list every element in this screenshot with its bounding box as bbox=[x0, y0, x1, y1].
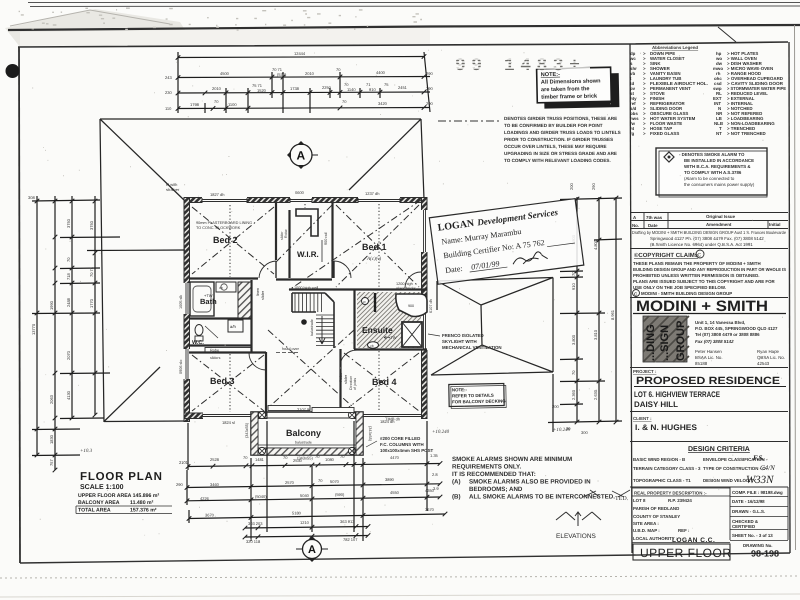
svg-text:6107 dh: 6107 dh bbox=[429, 299, 433, 313]
svg-text:3750: 3750 bbox=[66, 218, 71, 228]
svg-text:FRENCO ISOLATED: FRENCO ISOLATED bbox=[442, 333, 484, 338]
roof hip top-left bbox=[100, 119, 184, 200]
svg-text:70 74: 70 74 bbox=[89, 266, 94, 277]
svg-text:70: 70 bbox=[315, 454, 320, 459]
svg-text:900 rail: 900 rail bbox=[324, 232, 328, 245]
svg-text:TOTAL AREA: TOTAL AREA bbox=[78, 508, 111, 514]
svg-text:2010: 2010 bbox=[305, 71, 315, 76]
svg-text:Balcony: Balcony bbox=[286, 428, 321, 438]
title block left border bbox=[630, 44, 632, 553]
svg-text:42543: 42543 bbox=[757, 361, 770, 366]
svg-text:Date: Date bbox=[648, 223, 658, 228]
svg-text:3.800: 3.800 bbox=[571, 334, 576, 345]
svg-text:QBSA Lic. No.: QBSA Lic. No. bbox=[757, 355, 785, 360]
svg-text:2070: 2070 bbox=[66, 350, 71, 360]
svg-text:3.810: 3.810 bbox=[593, 329, 598, 340]
svg-text:OCCUR OVER LINTELS, THESE MAY: OCCUR OVER LINTELS, THESE MAY REQUIRE bbox=[504, 144, 607, 149]
svg-text:fg: fg bbox=[630, 131, 634, 136]
svg-text:USE ONLY ON THE JOB SPECIFIED: USE ONLY ON THE JOB SPECIFIED BELOW. bbox=[633, 285, 726, 290]
svg-text:CLIENT :: CLIENT : bbox=[633, 416, 652, 421]
svg-text:+10.3: +10.3 bbox=[80, 448, 93, 454]
svg-text:Robe: Robe bbox=[339, 373, 343, 382]
svg-text:TOPOGRAPHIC CLASS - T1: TOPOGRAPHIC CLASS - T1 bbox=[633, 478, 691, 483]
svg-text:243: 243 bbox=[165, 75, 172, 80]
svg-text:1005 slk: 1005 slk bbox=[179, 295, 183, 309]
svg-text:C: C bbox=[698, 253, 702, 259]
svg-text:PROJECT :: PROJECT : bbox=[633, 369, 657, 374]
svg-text:MODINI - SMITH BUILDING DESIGN: MODINI - SMITH BUILDING DESIGN GROUP bbox=[641, 291, 732, 296]
truss dotted verticals bbox=[230, 204, 379, 412]
svg-text:1830: 1830 bbox=[49, 434, 54, 444]
amendment table bbox=[630, 213, 788, 229]
top dimension lines bbox=[178, 52, 430, 113]
svg-text:Bed 1: Bed 1 bbox=[362, 242, 387, 252]
left dimension lines bbox=[32, 196, 185, 470]
svg-text:1827 dh: 1827 dh bbox=[210, 192, 224, 197]
svg-text:2250: 2250 bbox=[322, 85, 332, 90]
top page edge lines bbox=[28, 3, 800, 7]
door ensuite bbox=[405, 272, 421, 288]
svg-text:4550: 4550 bbox=[390, 490, 400, 495]
svg-text:2107 lb: 2107 lb bbox=[297, 407, 311, 412]
svg-text:3750: 3750 bbox=[89, 220, 94, 230]
svg-text:CERTIFIED: CERTIFIED bbox=[732, 524, 755, 529]
svg-text:Drafting by MODINI + SMITH BUI: Drafting by MODINI + SMITH BUILDING DESI… bbox=[632, 230, 786, 235]
svg-text:363 913: 363 913 bbox=[340, 519, 355, 524]
svg-text:Original Issue: Original Issue bbox=[706, 214, 736, 219]
svg-text:DENOTES GIRDER TRUSS POSITIONS: DENOTES GIRDER TRUSS POSITIONS, THESE AR… bbox=[504, 116, 617, 121]
a/h hatch box bbox=[228, 320, 243, 332]
svg-text:70: 70 bbox=[283, 455, 288, 460]
svg-text:910: 910 bbox=[369, 87, 376, 92]
svg-text:vb: vb bbox=[370, 344, 374, 348]
drafting note lines bbox=[632, 230, 786, 247]
svg-text:BE INSTALLED IN ACCORDANCE: BE INSTALLED IN ACCORDANCE bbox=[684, 158, 754, 163]
girder truss note bbox=[438, 120, 500, 122]
balcony door bbox=[268, 406, 310, 411]
svg-text:BUILDING DESIGN GROUP AND ANY: BUILDING DESIGN GROUP AND ANY REPRODUCTI… bbox=[633, 267, 786, 272]
svg-text:Bed 3: Bed 3 bbox=[210, 376, 235, 386]
svg-text:+10.240: +10.240 bbox=[432, 429, 450, 435]
top dim labels bbox=[165, 51, 433, 111]
exterior wall bottom bbox=[184, 413, 267, 419]
svg-text:8.961: 8.961 bbox=[610, 309, 615, 320]
svg-text:98-198: 98-198 bbox=[751, 549, 779, 559]
svg-text:a/h: a/h bbox=[230, 324, 236, 329]
section marker A top bbox=[287, 141, 318, 169]
svg-text:4226: 4226 bbox=[200, 496, 210, 501]
svg-text:SKYLIGHT WITH: SKYLIGHT WITH bbox=[442, 339, 477, 344]
svg-text:900: 900 bbox=[408, 304, 414, 308]
svg-text:TO BE CONFIRMED BY BUILDER FOR: TO BE CONFIRMED BY BUILDER FOR POINT bbox=[504, 123, 603, 128]
svg-text:757: 757 bbox=[49, 459, 54, 466]
svg-text:910: 910 bbox=[571, 283, 576, 290]
svg-text:2451: 2451 bbox=[398, 85, 408, 90]
svg-text:110: 110 bbox=[165, 106, 172, 111]
svg-text:230: 230 bbox=[165, 90, 172, 95]
svg-text:No.: No. bbox=[632, 223, 639, 228]
scan speckle noise bbox=[32, 50, 785, 539]
balcony bbox=[251, 412, 363, 455]
svg-text:LOT 8: LOT 8 bbox=[633, 498, 646, 503]
exterior wall top bbox=[184, 198, 427, 203]
svg-text:1237 dh: 1237 dh bbox=[365, 191, 379, 196]
svg-text:strainer: strainer bbox=[166, 187, 180, 192]
svg-text:NT: NT bbox=[716, 131, 722, 136]
smoke alarms note bbox=[452, 456, 615, 501]
svg-text:PRIOR TO CONSTRUCTION. IF GIRD: PRIOR TO CONSTRUCTION. IF GIRDER TRUSSES bbox=[504, 137, 613, 142]
svg-text:BSAA Lic. No.: BSAA Lic. No. bbox=[695, 355, 723, 360]
copyright section bbox=[630, 248, 788, 250]
skylight note bbox=[428, 334, 440, 336]
svg-text:320 118: 320 118 bbox=[246, 539, 261, 544]
svg-text:TYPE OF CONSTRUCTION - C: TYPE OF CONSTRUCTION - C bbox=[703, 466, 766, 471]
robe strip below wc bbox=[205, 348, 251, 353]
ink blob bbox=[6, 64, 20, 78]
svg-text:1.35: 1.35 bbox=[430, 453, 439, 458]
svg-text:TO COMPLY WITH RELEVANT LOADIN: TO COMPLY WITH RELEVANT LOADING CODES. bbox=[504, 158, 611, 163]
svg-text:2101: 2101 bbox=[179, 460, 189, 465]
svg-text:DESIGN CRITERIA: DESIGN CRITERIA bbox=[688, 446, 750, 453]
door bed2 bbox=[259, 261, 276, 278]
svg-text:303 203: 303 203 bbox=[248, 521, 263, 526]
svg-text:+10.249: +10.249 bbox=[553, 427, 571, 433]
svg-text:SCALE 1:100: SCALE 1:100 bbox=[80, 484, 124, 491]
bottom dim labels bbox=[176, 453, 439, 544]
svg-text:7th was: 7th was bbox=[646, 215, 663, 220]
svg-text:U.B.D. MAP :: U.B.D. MAP : bbox=[633, 528, 660, 533]
bath vanity bbox=[216, 282, 236, 292]
svg-text:DRAWING No.: DRAWING No. bbox=[743, 543, 773, 548]
bath robe cupboard bbox=[238, 282, 251, 318]
interior walls bbox=[189, 203, 427, 413]
svg-text:11.480 m²: 11.480 m² bbox=[130, 500, 154, 506]
core filled columns note bbox=[366, 441, 377, 447]
svg-text:>: > bbox=[643, 131, 646, 136]
logan development services stamp bbox=[429, 199, 583, 285]
wc fixture bbox=[195, 325, 203, 336]
svg-text:Unit 1, 14 Vanessa Blvd,: Unit 1, 14 Vanessa Blvd, bbox=[695, 320, 745, 325]
svg-text:1738: 1738 bbox=[290, 86, 300, 91]
svg-text:0906 slo: 0906 slo bbox=[179, 360, 183, 374]
svg-text:TIMB dh: TIMB dh bbox=[385, 417, 400, 422]
svg-text:1000 high wall: 1000 high wall bbox=[294, 286, 318, 290]
svg-text:290: 290 bbox=[426, 71, 433, 76]
svg-text:COMP. FILE : 98198.dwg: COMP. FILE : 98198.dwg bbox=[732, 490, 783, 495]
svg-text:ALL SMOKE ALARMS TO BE INTERCO: ALL SMOKE ALARMS TO BE INTERCONNECTED. bbox=[469, 494, 615, 501]
svg-text:#200 CORE FILLED: #200 CORE FILLED bbox=[380, 436, 420, 441]
svg-text:the consumers mains power supp: the consumers mains power supply) bbox=[684, 182, 755, 187]
svg-text:4500: 4500 bbox=[220, 71, 230, 76]
svg-text:BASIC WIND REGION - B: BASIC WIND REGION - B bbox=[633, 457, 685, 462]
svg-text:REAL PROPERTY DESCRIPTION :-: REAL PROPERTY DESCRIPTION :- bbox=[634, 491, 707, 496]
svg-text:REF :: REF : bbox=[678, 528, 690, 533]
svg-text:5040: 5040 bbox=[300, 493, 310, 498]
svg-text:...SIGN: ...SIGN bbox=[659, 325, 671, 361]
svg-text:FIXED GLASS: FIXED GLASS bbox=[650, 131, 679, 136]
svg-text:W33N: W33N bbox=[746, 474, 774, 486]
svg-text:TO COMPLY WITH A.S.3786: TO COMPLY WITH A.S.3786 bbox=[684, 170, 742, 175]
svg-text:I. & N. HUGHES: I. & N. HUGHES bbox=[635, 423, 698, 432]
svg-text:REFER TO DETAILS: REFER TO DETAILS bbox=[452, 393, 494, 399]
svg-text:UPGRADING IN SIZE OR STRESS GR: UPGRADING IN SIZE OR STRESS GRADE AND AR… bbox=[504, 151, 617, 156]
svg-text:LOT 6. HIGHVIEW TERRACE: LOT 6. HIGHVIEW TERRACE bbox=[634, 390, 721, 399]
landing walls bbox=[334, 288, 354, 290]
frame left bbox=[19, 47, 20, 563]
svg-text:2528: 2528 bbox=[210, 457, 220, 462]
svg-text:1990: 1990 bbox=[49, 300, 54, 310]
svg-text:300: 300 bbox=[581, 430, 588, 435]
svg-text:2570: 2570 bbox=[285, 480, 295, 485]
svg-text:1520: 1520 bbox=[257, 88, 267, 93]
roof wing right bbox=[431, 278, 553, 376]
frame bottom bbox=[20, 553, 790, 563]
svg-text:UPPER FLOOR: UPPER FLOOR bbox=[640, 546, 732, 560]
elevations arrows bbox=[556, 512, 601, 526]
svg-text:A: A bbox=[308, 544, 316, 556]
bottom dimension lines bbox=[187, 374, 553, 541]
svg-text:Abbreviations Legend: Abbreviations Legend bbox=[652, 45, 698, 50]
svg-text:PLANS ARE ISSUED SUBJECT TO TH: PLANS ARE ISSUED SUBJECT TO THIS COPYRIG… bbox=[633, 279, 775, 284]
svg-text:(343x55): (343x55) bbox=[368, 426, 372, 442]
svg-text:2530: 2530 bbox=[293, 458, 303, 463]
svg-text:THESE PLANS REMAIN THE PROPERT: THESE PLANS REMAIN THE PROPERTY OF MODIN… bbox=[633, 261, 761, 266]
svg-text:3420: 3420 bbox=[378, 101, 388, 106]
svg-text:C4/N: C4/N bbox=[760, 464, 775, 472]
svg-text:200: 200 bbox=[569, 183, 574, 190]
svg-text:1140: 1140 bbox=[347, 87, 356, 92]
svg-text:LOGAN C.C.: LOGAN C.C. bbox=[672, 537, 715, 544]
svg-text:W.C.: W.C. bbox=[192, 340, 204, 346]
W.I.R. robe shape bbox=[296, 209, 318, 236]
roof outline main bbox=[100, 119, 424, 422]
svg-text:Peter Hansen: Peter Hansen bbox=[695, 349, 722, 354]
svg-text:glass bricks: glass bricks bbox=[396, 287, 416, 291]
svg-text:4470: 4470 bbox=[390, 455, 400, 460]
svg-text:1770: 1770 bbox=[89, 298, 94, 308]
svg-text:75: 75 bbox=[384, 82, 389, 87]
svg-text:70: 70 bbox=[342, 99, 347, 104]
project section bbox=[630, 367, 788, 369]
svg-text:157.376 m²: 157.376 m² bbox=[130, 508, 157, 514]
outer sheet top edge bbox=[8, 25, 800, 30]
svg-text:70: 70 bbox=[243, 455, 248, 460]
svg-text:200: 200 bbox=[426, 101, 433, 106]
smoke alarm note box bbox=[656, 148, 767, 197]
upper floor box bbox=[633, 544, 730, 560]
svg-text:(590): (590) bbox=[335, 492, 345, 497]
svg-text:Bed 4: Bed 4 bbox=[372, 377, 397, 387]
svg-text:All Dimensions shown: All Dimensions shown bbox=[541, 77, 601, 85]
svg-text:3.9: 3.9 bbox=[433, 486, 439, 491]
svg-text:2488: 2488 bbox=[66, 297, 71, 307]
svg-text:SHEET No. - 3 of 13: SHEET No. - 3 of 13 bbox=[732, 533, 773, 538]
balcony posts bbox=[258, 447, 265, 454]
windows bottom wall bbox=[203, 413, 251, 420]
svg-text:1100: 1100 bbox=[228, 102, 237, 107]
svg-text:> NOT TRENCHED: > NOT TRENCHED bbox=[727, 131, 766, 136]
ceiling diagonals bbox=[192, 200, 421, 411]
address block bbox=[695, 320, 785, 366]
svg-text:Robe: Robe bbox=[210, 349, 219, 353]
svg-text:(570): (570) bbox=[277, 72, 287, 77]
bottom scan dotted line bbox=[0, 576, 800, 578]
svg-text:70: 70 bbox=[340, 454, 345, 459]
svg-text:FOR BALCONY DECKING: FOR BALCONY DECKING bbox=[452, 398, 506, 404]
svg-text:85188: 85188 bbox=[695, 361, 708, 366]
svg-text:F.C. COLUMNS WITH: F.C. COLUMNS WITH bbox=[380, 442, 424, 447]
stairs L-shaped bbox=[292, 293, 334, 348]
svg-text:...DING: ...DING bbox=[645, 324, 657, 361]
gray smudge band top-left bbox=[5, 9, 185, 47]
svg-text:©COPYRIGHT CLAIMs: ©COPYRIGHT CLAIMs bbox=[634, 252, 699, 259]
svg-text:Ensuite: Ensuite bbox=[362, 325, 393, 335]
window labels bbox=[210, 190, 394, 425]
ensuite vanity bbox=[368, 342, 379, 348]
note box balcony decking bbox=[449, 383, 507, 408]
svg-text:Tel (07) 3808 4479 or 3808 888: Tel (07) 3808 4479 or 3808 8886 bbox=[695, 332, 760, 337]
svg-text:Bath: Bath bbox=[200, 297, 217, 306]
right vertical dimension lines bbox=[548, 197, 622, 423]
svg-text:718: 718 bbox=[66, 273, 71, 280]
svg-text:Initial: Initial bbox=[769, 222, 780, 227]
MODINI + SMITH header bbox=[630, 297, 788, 299]
svg-text:sliders: sliders bbox=[210, 356, 221, 360]
svg-text:NOTE:-: NOTE:- bbox=[452, 387, 468, 392]
svg-text:290: 290 bbox=[591, 183, 596, 190]
svg-text:TERRAIN CATEGORY CLASS - 3: TERRAIN CATEGORY CLASS - 3 bbox=[633, 466, 701, 471]
svg-text:308: 308 bbox=[28, 195, 35, 200]
svg-text:4400: 4400 bbox=[376, 70, 386, 75]
frame right bbox=[789, 42, 790, 553]
svg-text:vb: vb bbox=[219, 286, 223, 290]
svg-text:5180: 5180 bbox=[292, 511, 302, 516]
svg-text:2010: 2010 bbox=[212, 86, 222, 91]
ensuite shower bbox=[396, 294, 427, 317]
windows top wall bbox=[202, 197, 247, 204]
svg-text:R.P. 239424: R.P. 239424 bbox=[668, 498, 692, 503]
svg-text:+TW: +TW bbox=[204, 293, 213, 298]
svg-text:linen: linen bbox=[256, 288, 260, 296]
windows left wall bbox=[184, 283, 191, 314]
svg-text:slider: slider bbox=[261, 290, 265, 300]
bath tub bbox=[190, 282, 214, 316]
svg-text:MODINI + SMITH: MODINI + SMITH bbox=[636, 298, 768, 315]
svg-text:(B): (B) bbox=[452, 494, 461, 501]
svg-text:IT IS RECOMMENDED THAT:: IT IS RECOMMENDED THAT: bbox=[452, 471, 536, 478]
balcony hatched rails bbox=[251, 412, 258, 455]
svg-text:MECHANICAL VENTILATION: MECHANICAL VENTILATION bbox=[442, 345, 502, 350]
svg-text:Fax (07) 3808 5142: Fax (07) 3808 5142 bbox=[695, 339, 734, 344]
svg-text:1080: 1080 bbox=[325, 457, 335, 462]
note box dimensions bbox=[537, 67, 620, 109]
svg-text:FLOOR PLAN: FLOOR PLAN bbox=[80, 471, 163, 483]
svg-text:(343x55): (343x55) bbox=[245, 422, 249, 438]
design criteria section bbox=[630, 441, 788, 443]
svg-text:Bed 2: Bed 2 bbox=[213, 235, 238, 245]
svg-text:UPPER FLOOR AREA 145.896 m²: UPPER FLOOR AREA 145.896 m² bbox=[78, 493, 159, 499]
svg-text:w: w bbox=[363, 300, 366, 304]
svg-text:3460: 3460 bbox=[210, 482, 220, 487]
svg-text:DATE - 16/12/98: DATE - 16/12/98 bbox=[732, 499, 765, 504]
svg-text:90mm PLASTERBOARD LINING: 90mm PLASTERBOARD LINING bbox=[196, 221, 252, 225]
roof hip bottom-left bbox=[104, 367, 160, 422]
client section bbox=[630, 411, 788, 413]
svg-text:(5040): (5040) bbox=[255, 494, 267, 499]
svg-text:timber frame or brick: timber frame or brick bbox=[541, 93, 598, 101]
svg-text:290: 290 bbox=[426, 86, 433, 91]
svg-text:slider: slider bbox=[344, 374, 348, 384]
svg-text:BALCONY AREA: BALCONY AREA bbox=[78, 500, 120, 506]
svg-text:100x100x4mm SHS POST: 100x100x4mm SHS POST bbox=[380, 448, 434, 453]
svg-text:TED.: TED. bbox=[615, 496, 629, 502]
left dim labels (rotated) bbox=[28, 195, 94, 466]
svg-text:70: 70 bbox=[336, 67, 341, 72]
exterior wall left bbox=[184, 198, 190, 422]
abbreviations legend bbox=[629, 45, 786, 136]
svg-text:4.800: 4.800 bbox=[593, 239, 598, 250]
right page edge bbox=[795, 25, 796, 550]
svg-text:- DENOTES SMOKE ALARM TO: - DENOTES SMOKE ALARM TO bbox=[679, 152, 745, 157]
fold diagonal top right bbox=[718, 27, 736, 42]
svg-text:(Alarm to be connected to: (Alarm to be connected to bbox=[684, 176, 735, 181]
svg-text:290: 290 bbox=[176, 482, 183, 487]
svg-text:Ryan Hape: Ryan Hape bbox=[757, 349, 780, 354]
svg-text:2063: 2063 bbox=[49, 394, 54, 404]
svg-text:F.S.: F.S. bbox=[753, 454, 764, 462]
svg-text:70: 70 bbox=[318, 478, 323, 483]
svg-text:LOADINGS AND GIRDER TRUSS LOAD: LOADINGS AND GIRDER TRUSS LOADS TO LINTE… bbox=[504, 130, 621, 135]
svg-text:balustrade: balustrade bbox=[295, 441, 312, 445]
svg-text:PARISH OF REDLAND: PARISH OF REDLAND bbox=[633, 506, 679, 511]
svg-text:COUNTY OF STANLEY: COUNTY OF STANLEY bbox=[633, 514, 680, 519]
svg-text:Springwood 4127 Ph. (07) 38: Springwood 4127 Ph. (07) 3808 4479 Fax. … bbox=[650, 236, 764, 241]
building design group stamp bbox=[643, 316, 689, 362]
svg-text:GROUP: GROUP bbox=[675, 321, 687, 361]
svg-text:70: 70 bbox=[571, 370, 576, 375]
svg-text:Robe: Robe bbox=[284, 229, 288, 238]
svg-text:BEDROOMS; AND: BEDROOMS; AND bbox=[469, 486, 523, 493]
door bed1 bbox=[334, 261, 351, 278]
svg-text:1210: 1210 bbox=[300, 520, 310, 525]
svg-text:PROPOSED RESIDENCE: PROPOSED RESIDENCE bbox=[636, 375, 780, 387]
svg-text:3670: 3670 bbox=[425, 507, 435, 512]
svg-text:DAISY HILL: DAISY HILL bbox=[634, 400, 678, 409]
svg-text:1798: 1798 bbox=[190, 102, 200, 107]
real property description bbox=[630, 486, 788, 488]
frame top bbox=[18, 42, 788, 47]
skylight box bbox=[402, 322, 422, 347]
svg-text:0600: 0600 bbox=[295, 190, 305, 195]
section marker A bottom bbox=[296, 536, 328, 562]
exterior wall right bbox=[422, 198, 428, 419]
svg-text:5070: 5070 bbox=[330, 479, 340, 484]
svg-text:ELEVATIONS: ELEVATIONS bbox=[556, 533, 597, 540]
svg-text:2.360: 2.360 bbox=[571, 389, 576, 400]
svg-text:DRAWN - G.L.S.: DRAWN - G.L.S. bbox=[732, 509, 765, 514]
svg-text:(B.Smith Licence No. 6964) und: (B.Smith Licence No. 6964) under Q.B.S.A… bbox=[650, 242, 753, 247]
svg-text:A: A bbox=[297, 149, 306, 163]
svg-text:2.8: 2.8 bbox=[432, 472, 438, 477]
ensuite floor hatch bbox=[357, 292, 421, 348]
svg-text:782 107: 782 107 bbox=[343, 537, 358, 542]
svg-text:70: 70 bbox=[66, 257, 71, 262]
svg-text:WITH B.C.A. REQUIREMENTS &: WITH B.C.A. REQUIREMENTS & bbox=[684, 164, 751, 169]
svg-text:are taken from the: are taken from the bbox=[541, 85, 590, 93]
svg-text:13770: 13770 bbox=[31, 323, 36, 335]
svg-text:Amendment: Amendment bbox=[706, 222, 732, 227]
svg-text:1824 sl: 1824 sl bbox=[222, 420, 235, 425]
